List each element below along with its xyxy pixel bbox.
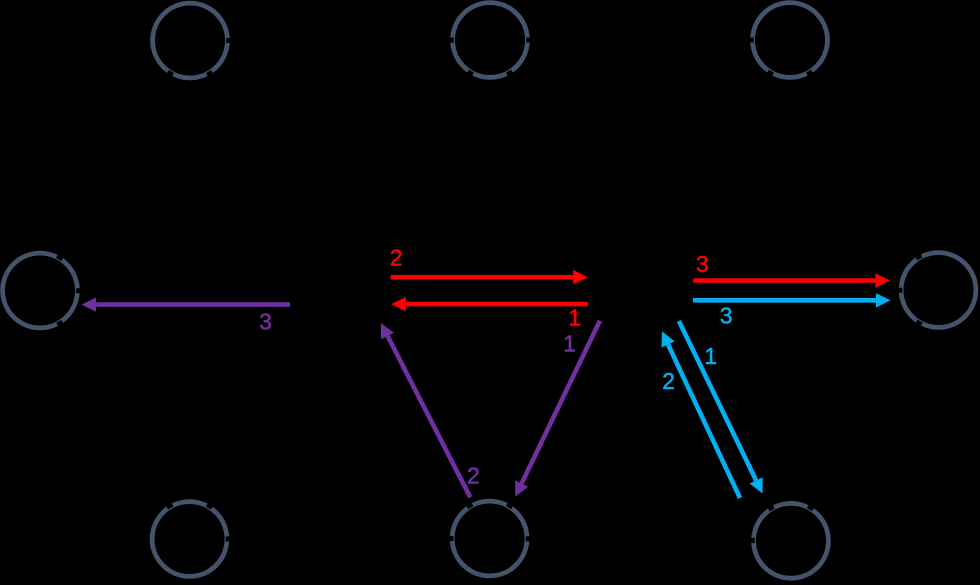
wire edge B2-B3 (black) [526,539,755,541]
svg-text:2: 2 [390,245,403,271]
node T1 [153,3,228,78]
arrow red3 [693,278,875,283]
arrow red2 [391,275,574,280]
arrow cyan2 [668,345,740,499]
svg-text:1: 1 [563,330,576,356]
svg-text:1: 1 [568,305,581,331]
wire edge A-T1 (black) [59,72,172,260]
node B2 [452,501,527,576]
wire edge B-B2 (black) [359,323,471,508]
node T2 [453,3,528,78]
node B (invisible/black) [303,255,378,330]
svg-text:1: 1 [704,343,717,369]
wire edge B-C (black) [376,290,604,295]
wire edge T2-C (black) [509,71,622,261]
svg-text:3: 3 [259,308,272,334]
wire edge B3-D (black) [809,321,920,509]
arrow cyan3 [693,298,876,303]
svg-text:2: 2 [467,462,480,488]
node A [3,253,78,328]
svg-text:3: 3 [696,251,709,277]
wire edge C-T3 (black) [659,71,772,261]
node D [901,253,976,328]
wire edge C-D (black) [676,290,902,292]
wire edge B-T2 (black) [359,71,472,261]
wire edge B2-C (black) [509,323,622,508]
arrow cyan1 [679,321,756,480]
wire edge T1-B (black) [209,72,322,261]
svg-text:3: 3 [720,303,733,329]
wire edge C-B3 (black) [659,323,772,510]
wire edge B1-B2 (black) [226,536,454,541]
arrow red1 [406,302,588,307]
arrow purple2 [388,336,471,497]
node B3 [754,503,829,578]
wire edge A-B (black) [76,291,304,292]
svg-text:2: 2 [662,368,675,394]
wire edge B1-B (black) [208,323,321,508]
wire edge T1-T2 (black) [226,38,454,43]
wire edge T2-T3 (black) [526,38,754,43]
arrow purple3 [96,302,290,307]
node C (invisible/black) [603,255,678,330]
node T3 [753,3,828,78]
wire edge A-B1 (black) [59,322,171,509]
arrow purple1 [522,321,600,484]
wire edge T3-D (black) [809,71,921,259]
node B1 [152,502,227,577]
